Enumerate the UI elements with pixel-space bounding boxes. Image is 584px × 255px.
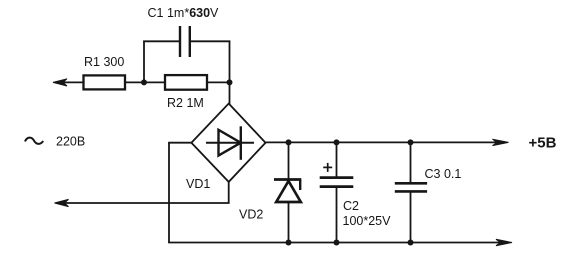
wire R2 to vertical <box>207 81 230 83</box>
wire bottom rail <box>168 242 503 244</box>
wire bridge bottom vertex down <box>228 182 230 203</box>
diode inside VD1 <box>206 126 254 160</box>
capacitor C2 (polarized) <box>320 163 354 187</box>
node junction dot (VD2 bottom) <box>286 240 292 246</box>
wire left vertical down to bottom rail <box>168 143 170 243</box>
wire <box>62 81 83 83</box>
svg-text:VD2: VD2 <box>239 208 263 222</box>
wire C2 top lead <box>336 142 338 177</box>
arrow (bottom output, minus) <box>496 239 512 245</box>
arrow (left AC terminal, top lead) <box>53 79 83 86</box>
sine symbol (AC) <box>25 138 43 144</box>
arrow (plus output) <box>493 139 509 145</box>
wire top plus rail <box>266 141 501 143</box>
capacitor C3 <box>395 183 427 191</box>
wire right vertical (C1/R2 to bridge top) <box>229 41 231 104</box>
wire C3 top lead <box>410 142 412 183</box>
node junction dot (C2 top) <box>334 139 340 145</box>
svg-text:220В: 220В <box>56 135 85 149</box>
arrow (left AC terminal, bottom lead) <box>55 199 69 206</box>
wire C1 top left segment <box>143 40 180 42</box>
svg-text:+5В: +5В <box>529 135 557 152</box>
svg-text:C3 0.1: C3 0.1 <box>425 167 462 181</box>
wire C1 top right segment <box>190 40 231 42</box>
resistor R2 <box>165 75 207 90</box>
svg-text:C2: C2 <box>343 199 359 213</box>
wire bridge left vertex to left <box>168 142 191 144</box>
node junction dot (R2 right joins vertical) <box>227 79 233 85</box>
node junction dot (C2 bottom) <box>334 240 340 246</box>
capacitor C1 <box>180 26 190 57</box>
bridge rectifier VD1 (diamond) <box>191 104 265 182</box>
plus mark <box>323 166 332 168</box>
node junction dot (C3 bottom) <box>408 240 414 246</box>
svg-text:C1 1m*630V: C1 1m*630V <box>148 6 220 20</box>
svg-text:100*25V: 100*25V <box>343 214 392 228</box>
node junction dot (VD2 top) <box>286 139 292 145</box>
svg-text:R1 300: R1 300 <box>84 55 124 69</box>
resistor R1 <box>84 75 126 89</box>
wire VD2 top lead <box>288 142 290 180</box>
node junction dot (C3 top) <box>408 139 414 145</box>
zener diode VD2 <box>274 180 301 203</box>
svg-text:R2 1M: R2 1M <box>167 96 204 110</box>
svg-text:VD1: VD1 <box>186 177 210 191</box>
node junction dot (C1 left leg joins R1-R2 wire) <box>141 79 147 85</box>
wire C3 bottom lead <box>410 191 412 242</box>
wire C2 bottom lead <box>336 187 338 243</box>
wire VD2 bottom lead <box>288 202 290 243</box>
wire R1 to R2 <box>125 81 165 83</box>
wire C1 left vertical <box>143 41 145 82</box>
wire horizontal to left AC arrow <box>60 202 230 204</box>
